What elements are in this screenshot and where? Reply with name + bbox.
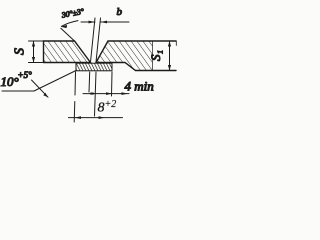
dimension b (top): leaning extension lines: [81, 18, 129, 62]
svg-text:+2: +2: [105, 99, 117, 110]
svg-text:S: S: [13, 48, 28, 55]
svg-text:S₁: S₁: [148, 50, 163, 61]
svg-text:4 min: 4 min: [125, 79, 154, 94]
right plate: [96, 41, 176, 71]
dimension S: extension lines, dim line and arrows: [29, 41, 46, 63]
left plate: [44, 41, 91, 63]
extension verticals (slight lean as in scan): [74, 72, 77, 95]
shared dim line y=93.6: [83, 93, 129, 95]
svg-text:10°: 10°: [1, 74, 19, 89]
bevel angle arc with arrow and extension line: [61, 21, 78, 41]
lower dim line (8+2 over it): [69, 117, 123, 119]
backing strip: [76, 63, 112, 71]
svg-text:+5°: +5°: [18, 70, 33, 80]
svg-text:b: b: [117, 6, 123, 18]
leader lines and arrow for 10deg label: [2, 71, 76, 98]
dimension S1: dim line and arrows: [168, 41, 171, 71]
svg-text:8: 8: [98, 101, 105, 116]
bottom dimensions: root gap 8+2 and 4 min overlap: [69, 72, 130, 122]
